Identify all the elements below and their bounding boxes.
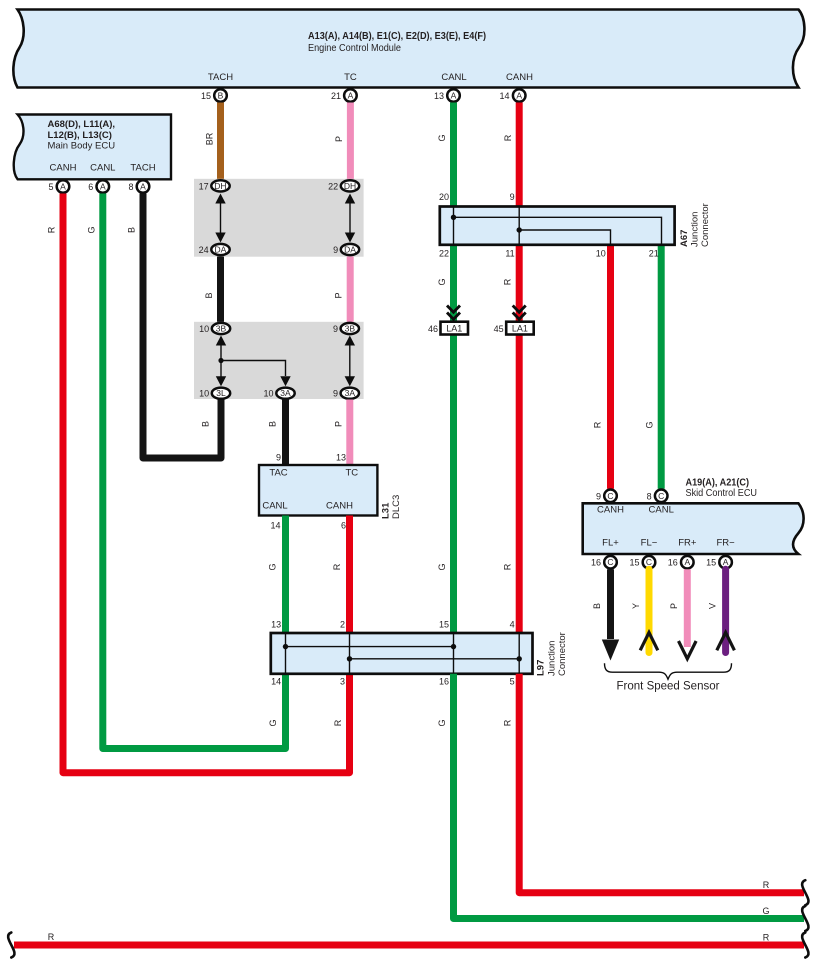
svg-text:P: P: [334, 292, 344, 298]
svg-text:DH: DH: [214, 181, 226, 191]
connector pin 10 (3A): [263, 388, 294, 399]
svg-text:16: 16: [439, 677, 449, 687]
svg-text:B: B: [218, 91, 224, 101]
svg-text:16: 16: [591, 558, 601, 568]
wire G green: A67 pin 21 to Skid Control CANL pin 8: [645, 245, 662, 489]
wire G green: ECM CANL pin 13 to A67 pin 20: [437, 103, 454, 207]
svg-text:R: R: [332, 563, 342, 570]
ECM pin 21 (A) TC: [331, 89, 357, 102]
svg-text:L12(B), L13(C): L12(B), L13(C): [48, 130, 112, 141]
connector pin 9 (DA): [333, 244, 359, 255]
svg-text:R: R: [763, 932, 770, 942]
svg-text:B: B: [268, 421, 278, 427]
connector pin 24 (DA): [199, 244, 230, 255]
svg-text:A: A: [100, 182, 106, 192]
svg-text:R: R: [48, 932, 55, 942]
svg-text:45: 45: [494, 324, 504, 334]
splice 45 LA1: [494, 306, 534, 335]
ECM module box (Engine Control Module banner): [13, 10, 804, 88]
svg-text:3B: 3B: [216, 323, 227, 333]
svg-text:C: C: [658, 491, 664, 501]
Main Body pin 5 (A) CANH: [48, 180, 69, 193]
break symbol red right: [802, 880, 808, 905]
svg-text:Y: Y: [631, 603, 641, 609]
wire B black: 10 3A to DLC3 TAC pin 9: [268, 400, 286, 466]
svg-text:4: 4: [510, 620, 515, 630]
svg-text:3A: 3A: [280, 388, 291, 398]
wire G green: A67 pin 22 through 46 LA1 to L97 pin 15: [437, 245, 454, 633]
svg-text:A13(A), A14(B), E1(C), E2(D),: A13(A), A14(B), E1(C), E2(D), E3(E), E4(…: [308, 31, 486, 42]
Main Body pin 8 (A) TACH: [128, 180, 149, 193]
svg-text:10: 10: [199, 324, 209, 334]
svg-text:A: A: [348, 91, 354, 101]
svg-text:FL+: FL+: [602, 537, 619, 548]
svg-text:A: A: [60, 182, 66, 192]
svg-text:R: R: [333, 719, 343, 726]
svg-text:R: R: [503, 134, 513, 141]
svg-text:17: 17: [199, 181, 209, 191]
svg-text:9: 9: [333, 389, 338, 399]
connector pin 10 (3B): [199, 323, 230, 334]
wire G green: L97 pin 16 to page edge right: [437, 674, 804, 919]
svg-text:G: G: [437, 278, 447, 285]
svg-text:5: 5: [510, 677, 515, 687]
svg-text:15: 15: [706, 558, 716, 568]
svg-text:CANH: CANH: [326, 501, 353, 512]
svg-text:A: A: [723, 557, 729, 567]
svg-text:G: G: [268, 719, 278, 726]
svg-text:G: G: [645, 421, 655, 428]
break symbol bottom red right: [802, 933, 808, 958]
svg-text:Junction: Junction: [690, 212, 701, 247]
svg-text:10: 10: [199, 389, 209, 399]
svg-text:9: 9: [510, 192, 515, 202]
svg-text:FR−: FR−: [716, 537, 735, 548]
wire P pink: ECM TC pin 21 to junction 22 DH: [334, 103, 350, 181]
connector pin 9 (3B): [333, 323, 359, 334]
L97 junction connector box: [271, 620, 568, 687]
svg-text:Skid Control ECU: Skid Control ECU: [686, 488, 758, 499]
svg-text:Connector: Connector: [700, 203, 711, 247]
splice 46 LA1: [428, 306, 468, 335]
ECM pin 14 (A) CANH: [499, 89, 525, 102]
svg-text:LA1: LA1: [446, 324, 462, 334]
svg-text:13: 13: [434, 91, 444, 101]
arrow 3B to 3L with branch to 3A: [216, 336, 291, 387]
connector pin 17 (DH): [199, 180, 230, 191]
svg-text:C: C: [607, 491, 613, 501]
svg-text:A19(A), A21(C): A19(A), A21(C): [686, 477, 750, 488]
svg-text:9: 9: [276, 453, 281, 463]
junction block J/C gray box 2: [194, 322, 364, 399]
svg-text:FL−: FL−: [641, 537, 658, 548]
wire B black: FL+ to front speed sensor (arrow out): [592, 569, 619, 660]
svg-text:2: 2: [340, 620, 345, 630]
Skid pin 8 (C) CANL: [647, 490, 668, 503]
svg-text:A: A: [516, 91, 522, 101]
svg-text:FR+: FR+: [678, 537, 697, 548]
svg-text:LA1: LA1: [512, 324, 528, 334]
svg-text:15: 15: [201, 91, 211, 101]
svg-text:TACH: TACH: [208, 72, 233, 83]
svg-text:A: A: [451, 91, 457, 101]
Skid pin 15 (C) FL-: [629, 556, 655, 569]
svg-text:TACH: TACH: [130, 163, 155, 174]
Skid pin 15 (A) FR-: [706, 556, 732, 569]
svg-text:DA: DA: [214, 244, 226, 254]
svg-text:B: B: [201, 421, 211, 427]
break symbol green right: [802, 906, 808, 931]
svg-text:14: 14: [271, 677, 281, 687]
svg-text:P: P: [669, 603, 679, 609]
svg-text:R: R: [503, 563, 513, 570]
svg-text:3B: 3B: [345, 323, 356, 333]
svg-text:13: 13: [336, 453, 346, 463]
svg-text:3L: 3L: [216, 388, 226, 398]
svg-text:DA: DA: [344, 244, 356, 254]
svg-text:B: B: [204, 292, 214, 298]
svg-text:R: R: [47, 226, 57, 233]
svg-text:14: 14: [499, 91, 509, 101]
svg-text:B: B: [592, 603, 602, 609]
svg-text:P: P: [333, 421, 343, 427]
break symbol bottom red left: [8, 933, 14, 958]
svg-text:B: B: [127, 227, 137, 233]
svg-text:L31: L31: [381, 502, 392, 519]
svg-text:9: 9: [333, 324, 338, 334]
svg-text:G: G: [268, 563, 278, 570]
svg-text:11: 11: [505, 249, 514, 259]
svg-text:CANL: CANL: [90, 163, 115, 174]
connector pin 10 (3L): [199, 388, 230, 399]
svg-text:3A: 3A: [345, 388, 356, 398]
wire G green: DLC3 CANL pin 14 to L97 pin 13: [268, 516, 286, 634]
svg-text:6: 6: [341, 521, 346, 531]
wire R red: bottom full-width to other pages: [14, 932, 804, 945]
svg-text:TC: TC: [345, 468, 358, 479]
DLC3 box L31: [259, 453, 402, 531]
svg-text:G: G: [762, 906, 769, 916]
svg-text:A: A: [684, 557, 690, 567]
svg-text:Main Body ECU: Main Body ECU: [48, 141, 116, 152]
double arrow DH-DA right: [345, 194, 355, 243]
svg-text:DH: DH: [344, 181, 356, 191]
wire R red: L97 pin 5 to page edge right: [503, 674, 804, 893]
wire P pink: 9 3A to DLC3 TC pin 13: [333, 400, 350, 466]
svg-text:TAC: TAC: [269, 468, 287, 479]
junction block J/C gray box 1: [194, 179, 364, 257]
svg-text:P: P: [334, 136, 344, 142]
double arrow 3B-3A right: [345, 336, 355, 387]
svg-text:A67: A67: [679, 230, 690, 247]
svg-text:A68(D), L11(A),: A68(D), L11(A),: [48, 119, 116, 130]
wire R red: ECM CANH pin 14 to A67 pin 9: [503, 103, 519, 207]
svg-text:CANL: CANL: [262, 501, 287, 512]
svg-text:9: 9: [333, 245, 338, 255]
brace Front Speed Sensor: [605, 663, 732, 692]
A67 junction connector box: [439, 192, 711, 259]
svg-text:R: R: [503, 278, 513, 285]
Main Body pin 6 (A) CANL: [88, 180, 109, 193]
svg-text:9: 9: [596, 491, 601, 501]
wire R red: DLC3 CANH pin 6 to L97 pin 2: [332, 516, 350, 634]
svg-text:Junction: Junction: [547, 641, 558, 676]
Skid pin 16 (C) FL+: [591, 556, 617, 569]
wire B black: 24 DA to 10 3B: [204, 257, 221, 323]
svg-text:V: V: [707, 603, 717, 609]
svg-text:21: 21: [649, 249, 659, 259]
svg-text:CANL: CANL: [649, 505, 674, 516]
svg-text:16: 16: [668, 558, 678, 568]
svg-text:15: 15: [629, 558, 639, 568]
svg-text:10: 10: [263, 389, 273, 399]
svg-text:G: G: [87, 226, 97, 233]
double arrow DH-DA left: [215, 194, 225, 243]
wire R red: A67 pin 10 to Skid Control CANH pin 9: [593, 245, 611, 489]
svg-text:Front Speed Sensor: Front Speed Sensor: [617, 681, 720, 693]
svg-text:CANH: CANH: [597, 505, 624, 516]
svg-text:6: 6: [88, 182, 93, 192]
svg-text:10: 10: [596, 249, 606, 259]
svg-text:8: 8: [128, 182, 133, 192]
svg-text:A: A: [140, 182, 146, 192]
svg-text:8: 8: [647, 491, 652, 501]
wire B black: Main Body TACH pin 8 U-path to junction 10 3L: [127, 194, 222, 459]
wire BR brown: ECM TACH pin 15 to junction 17 DH: [205, 103, 221, 181]
connector pin 22 (DH): [328, 180, 359, 191]
svg-text:22: 22: [328, 181, 338, 191]
svg-text:R: R: [503, 719, 513, 726]
wire R red: Main Body CANH pin 5 loop to L97 pin 3: [47, 194, 350, 773]
Skid Control ECU box: [583, 477, 804, 554]
ECM pin 13 (A) CANL: [434, 89, 460, 102]
svg-text:R: R: [763, 880, 770, 890]
svg-text:13: 13: [271, 620, 281, 630]
svg-text:3: 3: [340, 677, 345, 687]
svg-text:CANH: CANH: [50, 163, 77, 174]
svg-text:R: R: [593, 421, 603, 428]
svg-text:Connector: Connector: [557, 632, 568, 676]
svg-text:22: 22: [439, 249, 449, 259]
svg-text:15: 15: [439, 620, 449, 630]
wire Y yellow: FL- from front speed sensor (chevron in): [631, 569, 658, 652]
svg-text:CANH: CANH: [506, 72, 533, 83]
svg-text:L97: L97: [536, 660, 547, 676]
svg-text:DLC3: DLC3: [391, 495, 402, 519]
svg-text:Engine Control Module: Engine Control Module: [308, 43, 401, 54]
svg-text:14: 14: [270, 521, 280, 531]
svg-text:BR: BR: [205, 132, 215, 145]
svg-text:TC: TC: [344, 72, 357, 83]
Skid pin 9 (C) CANH: [596, 490, 617, 503]
svg-text:C: C: [607, 557, 613, 567]
wire V violet: FR- from front speed sensor (chevron in): [707, 569, 734, 652]
Skid pin 16 (A) FR+: [668, 556, 694, 569]
svg-text:20: 20: [439, 192, 449, 202]
svg-text:24: 24: [199, 245, 209, 255]
svg-text:G: G: [437, 563, 447, 570]
wire R red: A67 pin 11 through 45 LA1 to L97 pin 4: [503, 245, 520, 633]
svg-text:G: G: [437, 134, 447, 141]
connector pin 9 (3A): [333, 388, 359, 399]
wire P pink: 9 DA to 9 3B: [334, 257, 351, 323]
svg-text:CANL: CANL: [441, 72, 466, 83]
wire P pink: FR+ to front speed sensor (open arrow): [669, 569, 696, 659]
svg-text:21: 21: [331, 91, 341, 101]
svg-text:G: G: [437, 719, 447, 726]
ECM pin 15 (B) TACH: [201, 89, 227, 102]
svg-text:5: 5: [48, 182, 53, 192]
wire G green: Main Body CANL pin 6 loop to L97 pin 14: [87, 194, 286, 749]
svg-text:46: 46: [428, 324, 438, 334]
Main Body ECU box: [14, 115, 171, 180]
